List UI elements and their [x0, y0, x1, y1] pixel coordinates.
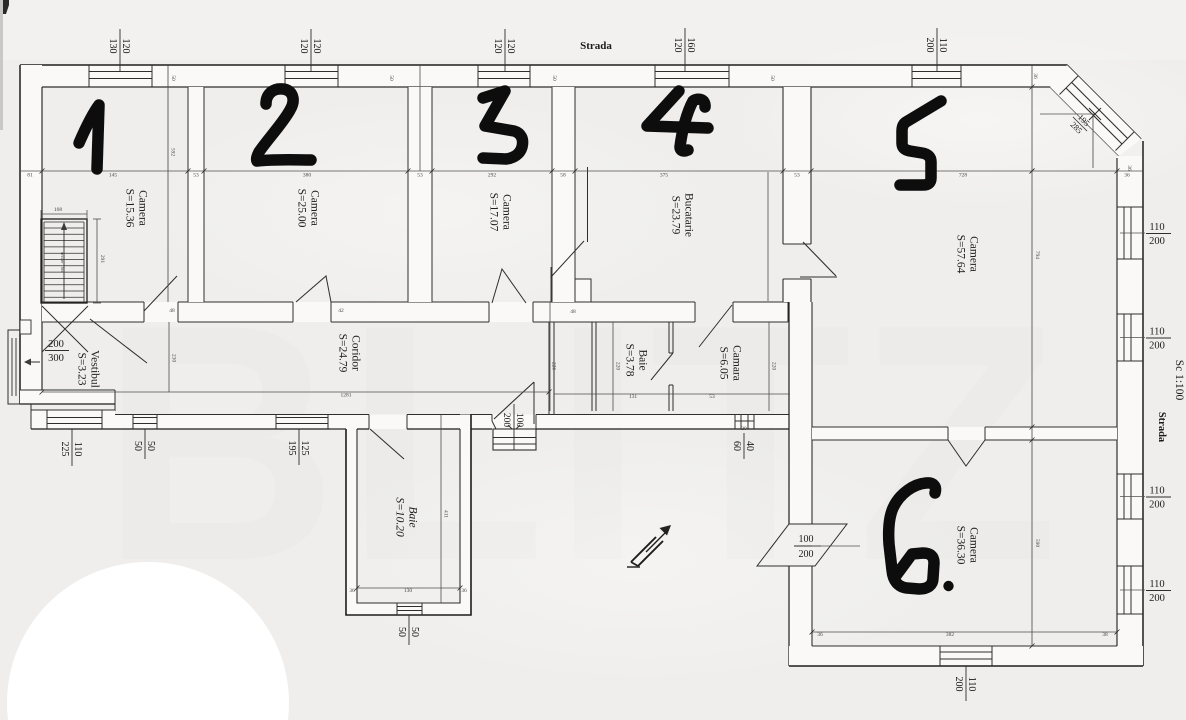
partition room3-room4 fill: [552, 87, 575, 302]
svg-text:200: 200: [1149, 500, 1165, 511]
svg-text:100: 100: [514, 413, 524, 428]
svg-text:Strada: Strada: [580, 40, 612, 52]
right wall window RW1 110/200: [1117, 206, 1143, 208]
chamfer corner window: [1072, 82, 1128, 138]
partition room3-room4: [551, 87, 553, 302]
svg-text:60: 60: [731, 441, 742, 451]
vertical dim line x420: [419, 65, 421, 171]
left wall pilaster: [20, 320, 31, 334]
svg-text:120: 120: [120, 39, 131, 54]
right wall window RW3 110/200: [1117, 473, 1143, 475]
svg-text:200: 200: [501, 413, 511, 428]
svg-text:160: 160: [685, 38, 696, 53]
room4 inner door swing: [551, 241, 584, 277]
window WA 110/225: [46, 410, 48, 429]
svg-text:Vestibul: Vestibul: [89, 350, 101, 388]
corridor dimension chain y392: [42, 391, 549, 393]
vertical dimension chain x1032: [1031, 65, 1033, 646]
svg-text:592: 592: [170, 148, 176, 157]
right exterior wall inner line: [1116, 158, 1118, 646]
right block bottom wall lines: [812, 645, 1117, 647]
svg-text:50: 50: [145, 441, 156, 451]
svg-text:120: 120: [311, 39, 322, 54]
corridor chain right part: [554, 393, 790, 395]
svg-text:108: 108: [54, 207, 63, 213]
svg-text:590: 590: [1034, 539, 1040, 548]
svg-text:48: 48: [169, 308, 175, 314]
svg-text:50: 50: [132, 441, 143, 451]
horizontal dimension chain y171: [20, 170, 1143, 172]
label vent 40/60: [731, 433, 755, 459]
svg-text:110: 110: [72, 442, 83, 457]
right block left wall fill: [789, 302, 812, 524]
svg-text:Camera: Camera: [501, 194, 513, 230]
svg-text:S=3.23: S=3.23: [76, 352, 88, 385]
right wall window RW4 110/200: [1117, 565, 1143, 567]
room4-room5 door swing: [803, 242, 836, 276]
label W5 110/200: [924, 28, 948, 62]
vestibule door X: [42, 306, 88, 352]
svg-text:50: 50: [551, 75, 557, 81]
partition room2-room3 fill: [408, 87, 432, 302]
svg-text:200: 200: [799, 549, 814, 560]
svg-text:Baie: Baie: [407, 506, 419, 527]
svg-text:50: 50: [170, 75, 176, 81]
svg-text:195: 195: [286, 441, 297, 456]
baie378 door swing: [651, 353, 673, 380]
label W1 120/130: [107, 29, 131, 63]
svg-text:200: 200: [1149, 593, 1165, 604]
svg-text:36: 36: [1124, 173, 1130, 179]
window W2 120/120: [284, 65, 286, 87]
window W4 160/120: [654, 65, 656, 87]
marker digit 5: [900, 101, 941, 185]
svg-text:S=17.07: S=17.07: [488, 193, 500, 232]
svg-text:200: 200: [1149, 236, 1165, 247]
stairs dimension right: [96, 219, 98, 303]
room2 door swing: [296, 276, 331, 302]
partition room1-room2: [187, 87, 189, 302]
partition 3-4 lower line: [587, 167, 589, 242]
svg-text:110: 110: [966, 677, 977, 692]
vertical dim line x550: [549, 302, 551, 411]
rooms bottom wall band fill: [42, 302, 695, 322]
baie protrusion inner: [357, 429, 460, 603]
svg-text:1281: 1281: [341, 393, 352, 399]
left paper edge: [0, 0, 3, 130]
chimney stub: [575, 279, 591, 302]
right block bottom wall fill: [789, 646, 1143, 666]
svg-text:S=24.79: S=24.79: [337, 334, 349, 373]
sc 1:100 label: [1173, 360, 1185, 401]
svg-text:728: 728: [959, 173, 968, 179]
svg-text:145: 145: [109, 173, 118, 179]
bottom window room6 110/200: [939, 646, 941, 666]
svg-text:53: 53: [709, 394, 715, 400]
baie dimension chain y588: [357, 587, 460, 589]
partition room2-room3: [407, 87, 409, 302]
svg-text:36: 36: [817, 632, 823, 638]
svg-text:Coridor: Coridor: [350, 335, 362, 371]
coridor label: [337, 334, 362, 373]
svg-text:S=25.00: S=25.00: [296, 189, 308, 228]
svg-text:110: 110: [1149, 327, 1164, 338]
window W3 120/120: [477, 65, 479, 87]
svg-text:36: 36: [461, 588, 467, 594]
room2 label: [296, 189, 321, 228]
svg-text:S=57.64: S=57.64: [955, 235, 967, 274]
marker digit 3: [483, 91, 523, 159]
chamfer dimension leader: [1040, 113, 1095, 115]
svg-text:Strada: Strada: [1156, 412, 1167, 443]
svg-text:131: 131: [629, 394, 638, 400]
svg-text:urcare 16tr: urcare 16tr: [60, 252, 65, 272]
label W2 120/120: [298, 29, 322, 63]
svg-text:50: 50: [769, 75, 775, 81]
svg-text:300: 300: [48, 353, 64, 364]
label WB 50/50: [132, 433, 156, 459]
label baie window 50/50: [396, 619, 420, 645]
baie door swing: [370, 429, 404, 459]
marker digit 2: [257, 89, 311, 161]
svg-text:110: 110: [937, 38, 948, 53]
left wall jog: [8, 330, 20, 404]
svg-text:40: 40: [744, 441, 755, 451]
vent window 40/60: [734, 415, 736, 430]
baie stub top: [330, 414, 369, 416]
right exterior wall outer line: [1142, 141, 1144, 666]
svg-text:Camera: Camera: [137, 190, 149, 226]
svg-text:382: 382: [946, 632, 955, 638]
svg-text:291: 291: [99, 255, 105, 264]
room6 top wall lines: [812, 426, 948, 428]
svg-text:38: 38: [1102, 632, 1108, 638]
bottom exterior wall band fill: [31, 410, 115, 429]
svg-text:S=3.78: S=3.78: [624, 343, 636, 376]
vertical dim line baie x440: [440, 415, 442, 603]
vestibule bottom wall band: [20, 390, 115, 404]
right block left wall: [788, 302, 790, 524]
svg-text:130: 130: [107, 39, 118, 54]
room5 label: [955, 235, 980, 274]
bottom exterior wall band lines: [31, 409, 115, 411]
baie378 right wall upper: [668, 322, 670, 353]
svg-text:58: 58: [560, 173, 566, 179]
rooms bottom wall band lines: [42, 301, 144, 303]
staircase: [41, 219, 87, 303]
baie378 left wall: [591, 322, 593, 411]
parallelogram leader: [812, 545, 860, 547]
camara door swing: [699, 305, 732, 347]
room4 label: [670, 193, 695, 237]
svg-text:53: 53: [193, 173, 199, 179]
svg-text:220: 220: [771, 362, 777, 371]
svg-text:120: 120: [672, 38, 683, 53]
label W4 160/120: [672, 28, 696, 62]
vestibule-corridor door swing: [90, 319, 147, 363]
marker digit 6: [889, 483, 936, 589]
room6 dimension chain y632: [812, 631, 1117, 633]
room6 top wall fill: [812, 427, 1117, 440]
right exterior wall fill: [1117, 156, 1143, 646]
svg-text:50: 50: [388, 75, 394, 81]
svg-text:Baie: Baie: [637, 349, 649, 370]
label WA 110/225: [59, 432, 83, 466]
svg-text:230: 230: [171, 354, 177, 363]
baie window 50/50: [396, 603, 398, 615]
svg-text:200: 200: [924, 38, 935, 53]
baie protrusion outer: [346, 415, 471, 616]
svg-text:S=36.30: S=36.30: [955, 526, 967, 565]
left exterior wall outer line: [19, 65, 21, 404]
svg-text:200: 200: [953, 677, 964, 692]
vertical dim line x769: [768, 322, 770, 411]
svg-text:125: 125: [299, 441, 310, 456]
vertical dim line x168: [167, 65, 169, 302]
label room6 bottom 110/200: [953, 667, 977, 701]
svg-text:200: 200: [1149, 341, 1165, 352]
partition room4-room5 fill: [783, 87, 811, 244]
svg-text:20: 20: [741, 426, 747, 432]
svg-text:S=6.05: S=6.05: [718, 346, 730, 379]
svg-text:225: 225: [59, 442, 70, 457]
svg-text:50: 50: [409, 627, 420, 637]
svg-text:Camera: Camera: [968, 527, 980, 563]
left exterior wall fill: [20, 65, 42, 404]
svg-text:36: 36: [349, 588, 355, 594]
svg-text:81: 81: [27, 173, 33, 179]
svg-text:Bucatarie: Bucatarie: [683, 193, 695, 237]
window WC 125/195: [275, 415, 277, 430]
svg-text:130: 130: [404, 588, 413, 594]
camara label: [718, 345, 743, 381]
marker digit 4: [647, 91, 708, 151]
baie378 label: [624, 343, 649, 376]
entry door swing: [494, 382, 534, 419]
room6 door swing: [948, 440, 985, 466]
top exterior wall outer line: [20, 65, 1141, 139]
svg-text:36: 36: [1126, 165, 1132, 171]
svg-text:292: 292: [488, 173, 497, 179]
svg-text:48: 48: [570, 309, 576, 315]
svg-text:Camara: Camara: [731, 345, 743, 381]
room1 label: [124, 189, 149, 228]
right wall window RW2 110/200: [1117, 313, 1143, 315]
svg-text:50: 50: [396, 627, 407, 637]
partition room4-room5: [782, 87, 784, 244]
room1 door swing: [144, 276, 177, 311]
north arrow: [631, 537, 656, 562]
svg-text:S=15.36: S=15.36: [124, 189, 136, 228]
marker digit 1: [79, 105, 99, 169]
svg-text:53: 53: [417, 173, 423, 179]
chamfer dimension label 195/285: [1066, 110, 1095, 139]
baie378 right wall lower: [668, 385, 670, 411]
room3 door swing: [492, 269, 526, 303]
vertical dim line x169 lower: [168, 322, 170, 392]
svg-text:120: 120: [505, 39, 516, 54]
svg-text:120: 120: [492, 39, 503, 54]
window WB 50/50: [132, 415, 134, 430]
svg-text:110: 110: [1149, 579, 1164, 590]
vestibul label: [76, 350, 101, 388]
svg-text:53: 53: [794, 173, 800, 179]
svg-text:220: 220: [615, 362, 621, 371]
marker digit 6 dot: [943, 581, 953, 591]
partition room1-room2 fill: [188, 87, 204, 302]
svg-text:Sc 1:100: Sc 1:100: [1173, 360, 1185, 401]
svg-text:36: 36: [1032, 73, 1038, 79]
scanner corner mark: [0, 0, 9, 14]
svg-text:S=23.79: S=23.79: [670, 196, 682, 235]
baie big label: [394, 497, 419, 537]
top exterior wall band fill: [20, 65, 1067, 87]
svg-text:110: 110: [1149, 222, 1164, 233]
left exterior wall inner line: [41, 87, 43, 390]
vertical dim line x613: [612, 322, 614, 411]
label W3 120/120: [492, 29, 516, 63]
window W1 120/130: [88, 65, 90, 87]
vestibule door arrow: [27, 361, 40, 363]
label WC 125/195: [286, 431, 310, 465]
svg-text:100: 100: [799, 534, 814, 545]
stairs dimension above: [41, 213, 87, 215]
svg-text:110: 110: [1149, 486, 1164, 497]
entry steps: [493, 429, 536, 450]
window W5 110/200: [911, 65, 913, 87]
white circle blob: [7, 562, 289, 720]
svg-text:226: 226: [551, 362, 557, 371]
corridor-entry wall pair: [548, 322, 550, 415]
svg-text:375: 375: [660, 173, 669, 179]
svg-text:794: 794: [1034, 251, 1040, 260]
svg-text:200: 200: [48, 339, 64, 350]
room6 label: [955, 526, 980, 565]
svg-text:S=10.20: S=10.20: [394, 497, 406, 537]
svg-text:380: 380: [303, 173, 312, 179]
strada right label: [1156, 412, 1167, 443]
svg-text:411: 411: [443, 510, 449, 518]
parallelogram door symbol: [757, 524, 847, 566]
svg-text:Camera: Camera: [968, 236, 980, 272]
svg-text:42: 42: [338, 308, 344, 314]
svg-text:120: 120: [298, 39, 309, 54]
entry label 100/200: [501, 404, 524, 450]
chamfer wall band fill: [1050, 65, 1141, 156]
room3 label: [488, 193, 513, 232]
baie protrusion walls fill: [346, 427, 357, 615]
svg-text:Camera: Camera: [309, 190, 321, 226]
top exterior wall inner line: [42, 87, 1119, 156]
